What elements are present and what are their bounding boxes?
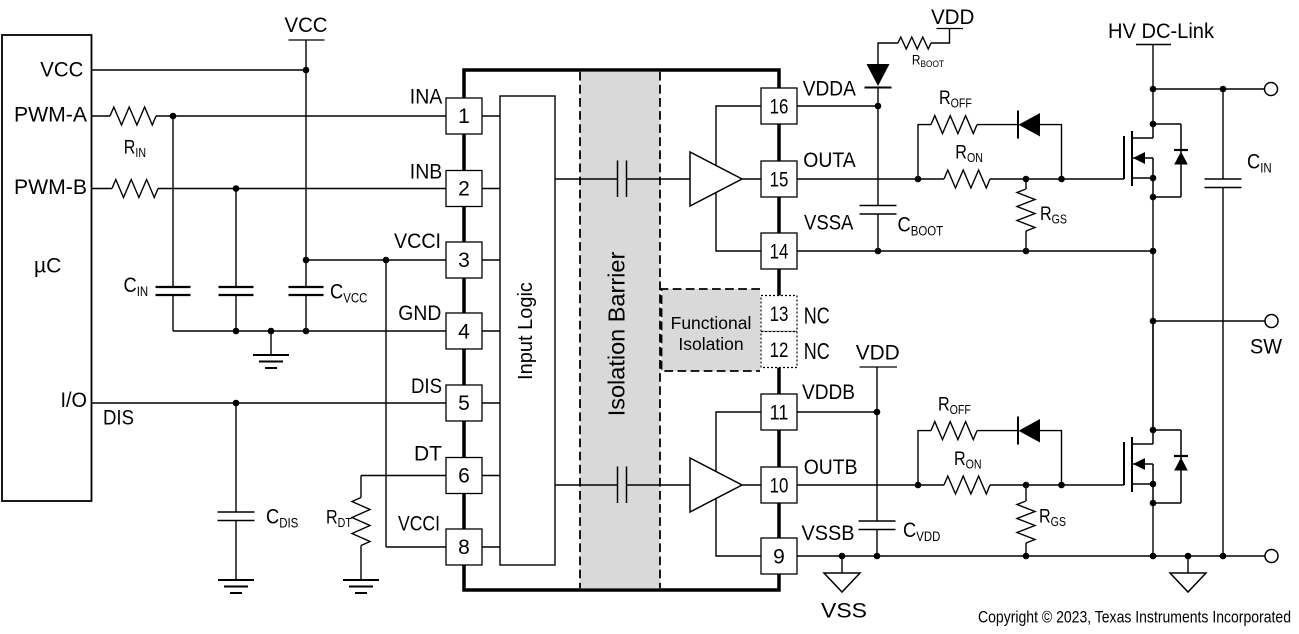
- wire Q1 source down: [1152, 197, 1154, 430]
- node SW junction: [1150, 318, 1157, 325]
- svg-text:DIS: DIS: [103, 406, 134, 429]
- wire VCCI row: [306, 259, 446, 261]
- wire pin8 stub: [482, 546, 500, 548]
- transistor Q2 low side MOSFET: [1124, 427, 1188, 507]
- label RDT: [326, 506, 352, 530]
- wire HV stem: [1152, 44, 1154, 124]
- wire CIN1 to GND row: [172, 295, 174, 331]
- svg-text:3: 3: [458, 249, 470, 272]
- svg-text:PWM-A: PWM-A: [14, 103, 87, 126]
- svg-text:Isolation Barrier: Isolation Barrier: [604, 252, 630, 417]
- svg-text:Functional: Functional: [671, 313, 752, 333]
- wire diode A down: [1040, 125, 1062, 179]
- pin 6 box: [446, 458, 482, 494]
- resistor RIN B: [112, 180, 158, 198]
- capacitor isolation A: [617, 161, 619, 198]
- node GND junction CIN2: [233, 328, 240, 335]
- label CBOOT: [898, 213, 944, 239]
- ground VSS arrow: [824, 573, 860, 592]
- label ROFF B: [938, 393, 971, 417]
- wire PWM-A lead: [92, 115, 111, 117]
- svg-text:PWM-B: PWM-B: [14, 176, 87, 199]
- svg-text:µC: µC: [34, 255, 61, 278]
- pin 12 box dotted: [761, 332, 797, 368]
- ground earth symbol: [253, 355, 289, 368]
- node OUTB junction RGS: [1023, 482, 1030, 489]
- terminal SW: [1265, 315, 1278, 328]
- node bottom rail junction Q2 source: [1150, 553, 1157, 560]
- wire diode B down: [1040, 431, 1062, 485]
- svg-text:Isolation: Isolation: [678, 334, 743, 354]
- node top rail junction Q1 drain: [1150, 86, 1157, 93]
- wire GND row: [173, 330, 446, 332]
- capacitor CDIS: [218, 512, 255, 521]
- ground stem: [270, 331, 272, 355]
- node OUTA junction diode return: [1058, 176, 1065, 183]
- label CIN left: [124, 274, 149, 300]
- wire I/O DIS row: [92, 402, 447, 404]
- VDD supply bar A: [937, 28, 964, 30]
- wire ROFF to diode A: [977, 124, 1018, 126]
- capacitor CBOOT: [860, 206, 897, 215]
- ground power stem: [1187, 556, 1189, 573]
- wire ROFF branch A up: [918, 125, 931, 179]
- wire cap to buffer B: [627, 484, 691, 486]
- svg-text:VCCI: VCCI: [394, 230, 441, 253]
- ground earth under RDT: [343, 580, 379, 593]
- node VCCI junction VCC: [303, 257, 310, 264]
- functional isolation box fill: [662, 289, 761, 371]
- microcontroller uC block: [2, 35, 92, 501]
- node OUTB junction diode return: [1058, 482, 1065, 489]
- diode DOFF B: [1017, 417, 1019, 445]
- wire SW row: [1153, 320, 1266, 322]
- wire VCC from uC: [92, 69, 307, 71]
- IC outline: [464, 70, 779, 590]
- wire VDD stem A: [931, 29, 950, 44]
- resistor ROFF B: [931, 422, 977, 440]
- svg-text:VCCI: VCCI: [398, 513, 440, 536]
- wire VDDB to CVDD: [876, 412, 878, 521]
- diode DBOOT: [867, 64, 890, 86]
- wire pin5 stub: [482, 402, 500, 404]
- node PWM-B junction: [233, 185, 240, 192]
- wire buffer B out: [742, 484, 761, 486]
- transistor Q1 high side MOSFET: [1124, 121, 1188, 201]
- ground power arrow: [1170, 573, 1206, 592]
- wire channel B to barrier cap: [555, 484, 618, 486]
- resistor ROFF A: [931, 116, 977, 134]
- label RGS B: [1039, 505, 1066, 529]
- node bottom rail junction VSS ground: [839, 553, 846, 560]
- label CDIS: [266, 505, 298, 531]
- svg-text:HV DC-Link: HV DC-Link: [1108, 20, 1214, 43]
- diode DOFF A: [1017, 111, 1019, 139]
- svg-text:VDDB: VDDB: [802, 381, 855, 404]
- pin 5 box: [446, 385, 482, 421]
- wire pin11 to VDDB node: [797, 411, 877, 413]
- label RGS A: [1040, 203, 1067, 227]
- pin 13 box dotted: [761, 296, 797, 332]
- terminal HV+: [1265, 83, 1278, 96]
- wire ROFF to diode B: [977, 430, 1018, 432]
- node bottom rail junction power ground: [1185, 553, 1192, 560]
- isolation barrier band: [580, 72, 660, 589]
- svg-text:INA: INA: [410, 86, 443, 109]
- wire channel A to barrier cap: [555, 178, 618, 180]
- svg-text:1: 1: [458, 105, 470, 128]
- wire pin2 stub: [482, 188, 500, 190]
- node top rail junction CIN: [1220, 86, 1227, 93]
- wire Q2 source down: [1152, 503, 1154, 556]
- wire VSSA row: [797, 250, 1153, 252]
- svg-text:15: 15: [770, 168, 789, 191]
- wire CIN2 vertical: [235, 189, 237, 288]
- pin numbers: [458, 95, 789, 568]
- pin boxes left: [446, 88, 797, 574]
- isolation barrier right dashed edge: [659, 72, 661, 588]
- VCC supply bar: [289, 39, 325, 41]
- wire CBOOT to VSSA row: [877, 214, 879, 251]
- wire pin14 inside: [716, 193, 761, 252]
- pin 1 box: [446, 98, 482, 134]
- svg-text:11: 11: [770, 401, 789, 424]
- pin 11 box: [761, 394, 797, 430]
- wire CIN1 vertical: [172, 116, 174, 287]
- svg-text:10: 10: [770, 474, 789, 497]
- buffer B: [690, 458, 742, 512]
- wire PWM-B lead: [92, 188, 113, 190]
- ground VSS stem: [841, 556, 843, 573]
- svg-text:6: 6: [458, 465, 470, 488]
- svg-text:VDD: VDD: [931, 6, 975, 29]
- svg-text:12: 12: [770, 339, 789, 362]
- label RIN: [124, 136, 146, 160]
- wire pin6 stub: [482, 475, 500, 477]
- svg-text:GND: GND: [398, 302, 441, 325]
- wire pin16 inside: [716, 106, 761, 166]
- svg-text:Copyright © 2023, Texas Instru: Copyright © 2023, Texas Instruments Inco…: [978, 609, 1291, 627]
- wire bottom rail VSSB row: [797, 555, 1266, 557]
- capacitor CVCC: [289, 287, 324, 295]
- svg-text:I/O: I/O: [61, 389, 88, 412]
- svg-text:9: 9: [773, 545, 785, 568]
- node VSSA junction RGS: [1023, 248, 1030, 255]
- wire CVDD to VSSB row: [876, 530, 878, 557]
- wire cap to buffer A: [627, 178, 691, 180]
- wire RDT stem: [360, 546, 362, 581]
- ground earth under CDIS: [218, 580, 254, 593]
- wire Q2 drain up: [1152, 321, 1154, 430]
- wire pin1 stub: [482, 115, 500, 117]
- input logic box: [500, 96, 555, 565]
- wire CDIS stem: [235, 521, 237, 581]
- pin 10 box: [761, 467, 797, 503]
- resistor RDT: [352, 498, 370, 546]
- pin 2 box: [446, 171, 482, 207]
- capacitor isolation B: [617, 467, 619, 504]
- label RON A: [955, 141, 983, 165]
- wire RBOOT to diode: [878, 43, 898, 64]
- wire RDT top: [360, 476, 362, 498]
- svg-text:VSSB: VSSB: [802, 522, 855, 545]
- capacitor CIN 1: [156, 287, 191, 295]
- wire RON to gate B: [990, 484, 1124, 486]
- resistor RGS A: [1025, 179, 1027, 189]
- wire VCCI branch vertical: [385, 260, 387, 547]
- resistor RBOOT: [898, 37, 931, 49]
- wire VDDA to CBOOT: [877, 106, 879, 205]
- svg-text:16: 16: [770, 95, 789, 118]
- node VDDA junction: [875, 103, 882, 110]
- wire pin16 to VDDA node: [797, 105, 878, 107]
- HV DC-Link bar: [1136, 44, 1171, 46]
- wire VCC vertical: [305, 40, 307, 287]
- functional isolation box dashed border: [662, 289, 761, 371]
- svg-text:2: 2: [458, 178, 470, 201]
- svg-text:8: 8: [458, 536, 470, 559]
- isolation barrier left dashed edge: [579, 72, 581, 588]
- wire pin9 inside: [716, 499, 761, 557]
- node PWM-A junction: [170, 113, 177, 120]
- svg-text:14: 14: [770, 240, 789, 263]
- buffer A: [690, 152, 742, 206]
- svg-text:VDDA: VDDA: [803, 78, 856, 101]
- node GND junction ground: [268, 328, 275, 335]
- svg-text:VSS: VSS: [821, 600, 867, 623]
- wire CIN2 to GND row: [235, 295, 237, 331]
- wire CVCC to GND row: [305, 295, 307, 331]
- node bottom rail junction CVDD: [874, 553, 881, 560]
- wire top rail: [1153, 88, 1266, 90]
- svg-text:Input Logic: Input Logic: [515, 282, 537, 380]
- wire OUTA row: [797, 178, 944, 180]
- svg-text:VSSA: VSSA: [804, 212, 853, 235]
- label CVDD: [903, 519, 940, 545]
- pin 15 box: [761, 161, 797, 197]
- resistor RON B: [944, 476, 990, 494]
- svg-text:DIS: DIS: [411, 375, 442, 398]
- pin 16 box: [761, 88, 797, 124]
- node bottom rail junction CIN: [1220, 553, 1227, 560]
- terminal SW return: [1265, 550, 1278, 563]
- node DIS junction: [233, 400, 240, 407]
- wire diode to VDDA: [877, 88, 879, 107]
- svg-text:VCC: VCC: [285, 14, 328, 37]
- pin 8 box: [446, 529, 482, 565]
- node VCC junction: [303, 67, 310, 74]
- wire pin3 stub: [482, 259, 500, 261]
- pin 4 box: [446, 313, 482, 349]
- svg-text:NC: NC: [804, 338, 830, 364]
- node GND junction CVCC: [303, 328, 310, 335]
- VDD supply bar B: [860, 366, 898, 368]
- resistor RGS B: [1025, 485, 1027, 501]
- label CVCC: [330, 280, 367, 306]
- wire DT row: [361, 475, 446, 477]
- svg-text:5: 5: [458, 392, 470, 415]
- svg-text:INB: INB: [410, 161, 443, 184]
- label RON B: [954, 448, 982, 472]
- wire ROFF branch B up: [918, 431, 931, 485]
- svg-text:VDD: VDD: [856, 342, 900, 365]
- wire pin11 inside: [716, 412, 761, 472]
- svg-text:4: 4: [458, 321, 470, 344]
- wire buffer A out: [742, 178, 761, 180]
- wire pin4 stub: [482, 330, 500, 332]
- wire OUTB row: [797, 484, 944, 486]
- wire VCCI to pin8: [386, 546, 446, 548]
- node VCCI junction branch: [383, 257, 390, 264]
- node VSSA junction CBOOT: [875, 248, 882, 255]
- resistor RIN A: [110, 107, 156, 125]
- svg-text:NC: NC: [804, 303, 830, 329]
- svg-text:OUTA: OUTA: [803, 149, 855, 172]
- wire PWM-A to pin1: [156, 115, 446, 117]
- wire CDIS vertical: [235, 403, 237, 512]
- capacitor CVDD: [859, 521, 896, 530]
- capacitor CIN 2: [219, 287, 254, 295]
- pin 3 box: [446, 242, 482, 278]
- label CIN right: [1247, 150, 1272, 176]
- node VDDB junction: [874, 409, 881, 416]
- resistor RON A: [944, 170, 990, 188]
- wire PWM-B to pin2: [158, 188, 446, 190]
- svg-text:13: 13: [770, 303, 789, 326]
- node OUTA junction ROFF branch: [915, 176, 922, 183]
- node VSSA junction Q1 source: [1150, 248, 1157, 255]
- pin 14 box: [761, 233, 797, 269]
- svg-text:DT: DT: [414, 443, 442, 466]
- pin 9 box: [761, 538, 797, 574]
- svg-text:VCC: VCC: [40, 59, 83, 82]
- node OUTB junction ROFF branch: [915, 482, 922, 489]
- label ROFF A: [939, 87, 972, 111]
- wire VDD stem B: [876, 367, 878, 412]
- node bottom rail junction RGS: [1023, 553, 1030, 560]
- svg-text:SW: SW: [1250, 335, 1283, 359]
- label RBOOT: [912, 52, 945, 69]
- wire RON to gate A: [990, 178, 1124, 180]
- node OUTA junction RGS: [1023, 176, 1030, 183]
- svg-text:OUTB: OUTB: [804, 456, 858, 479]
- capacitor CIN bulk: [1222, 89, 1224, 179]
